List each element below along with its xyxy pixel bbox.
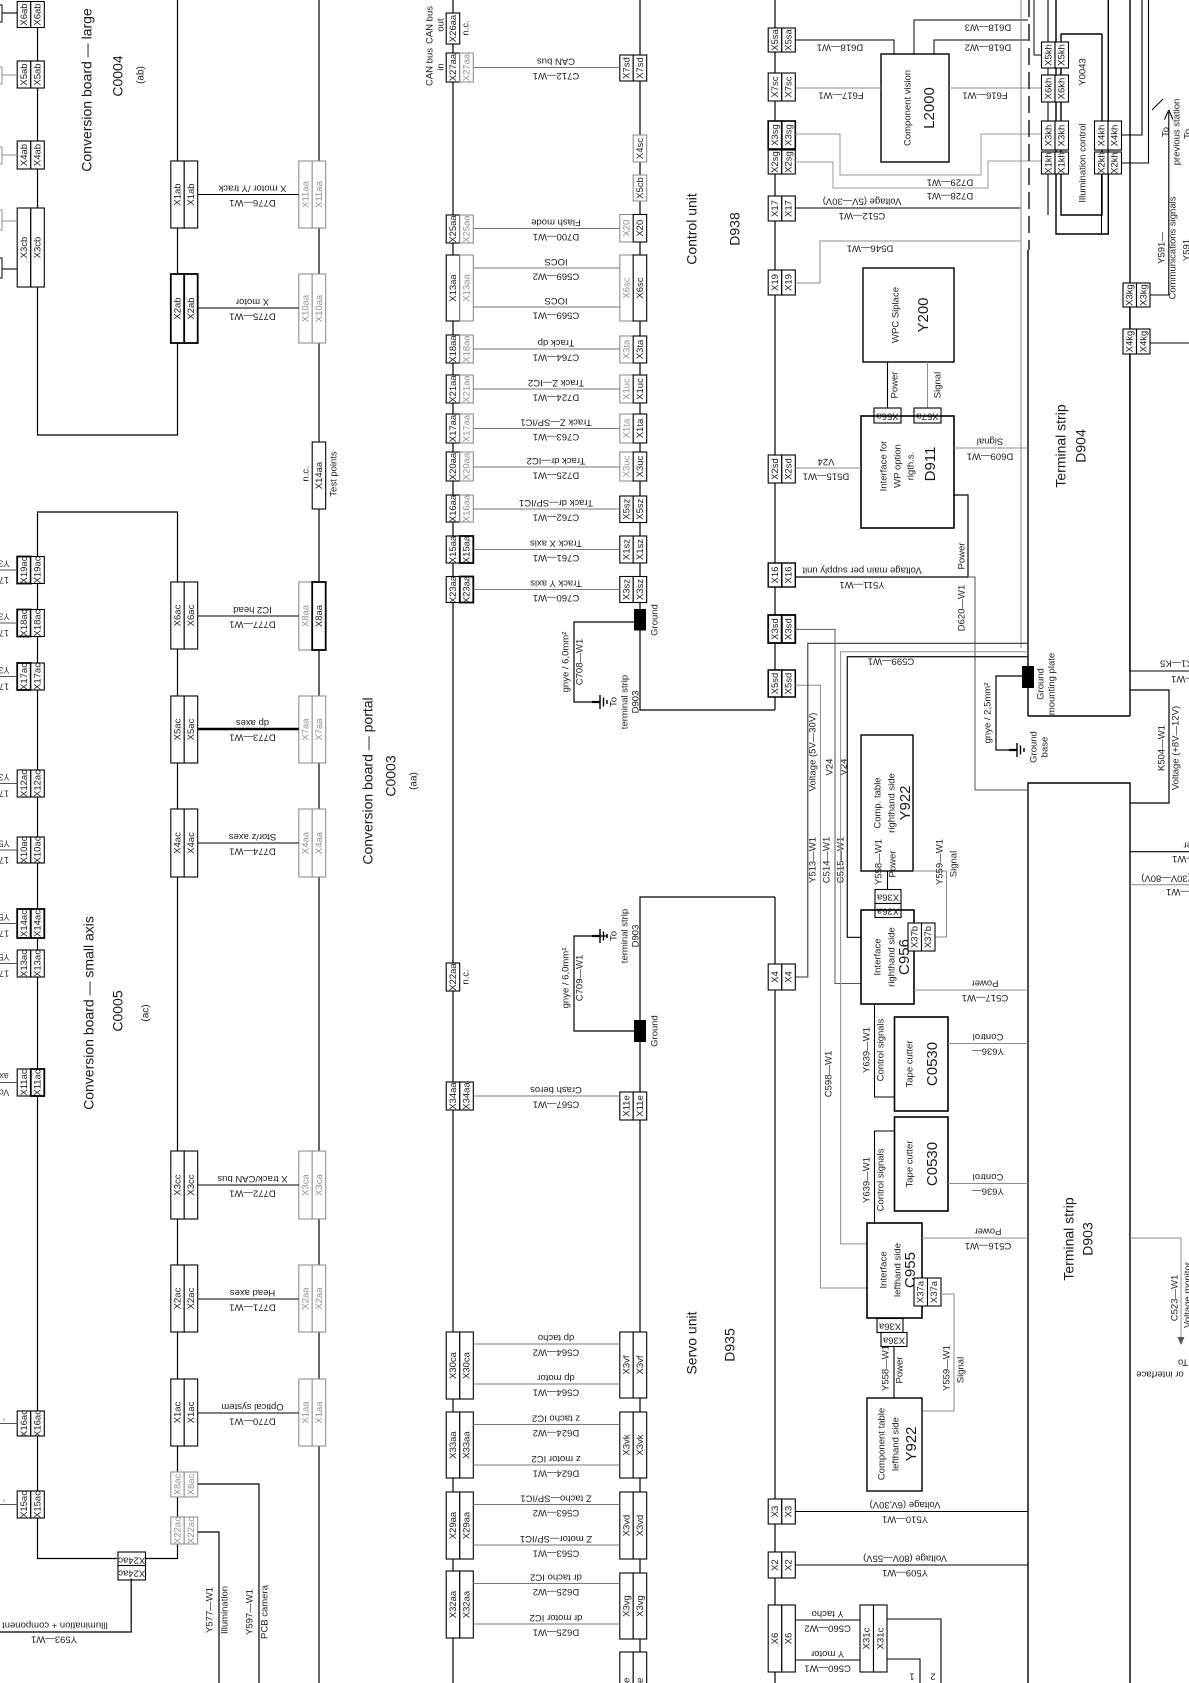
svg-text:X24ac: X24ac: [118, 1568, 145, 1579]
connector X31c: [860, 1605, 874, 1672]
svg-text:X19: X19: [770, 274, 781, 291]
svg-text:X7sc: X7sc: [784, 76, 795, 97]
svg-text:terminal strip: terminal strip: [620, 675, 631, 729]
svg-text:CAN bus: CAN bus: [537, 55, 575, 66]
svg-text:X6: X6: [784, 1633, 795, 1645]
svg-text:Terminal strip: Terminal strip: [1061, 1197, 1077, 1280]
ground bar control unit: [634, 609, 646, 631]
connector X15aa: [446, 536, 460, 563]
connector X27aa: [446, 53, 460, 82]
svg-text:X34aa: X34aa: [462, 1082, 473, 1110]
connector X18ac: [17, 610, 31, 637]
svg-text:To: To: [609, 697, 620, 707]
wire Y513-W1 voltage 5V-30V to X4: [795, 643, 1028, 977]
connector X1ta: [620, 414, 634, 443]
wire F617-W1: [795, 87, 881, 89]
svg-text:X3ta: X3ta: [622, 339, 633, 359]
cable C564—W1 (dp motor): [473, 1383, 620, 1385]
svg-text:D618—W2: D618—W2: [965, 41, 1011, 52]
svg-text:C599—W1: C599—W1: [868, 655, 914, 666]
connector X16ac: [17, 1411, 31, 1436]
svg-text:Voltage (5V—30V): Voltage (5V—30V): [808, 713, 819, 792]
connector X23aa: [446, 577, 460, 603]
svg-text:D625—W2: D625—W2: [533, 1586, 579, 1597]
svg-text:D774—W1: D774—W1: [229, 845, 275, 856]
svg-text:Power: Power: [888, 851, 899, 878]
svg-text:X25aa: X25aa: [448, 215, 459, 243]
svg-text:C563—W2: C563—W2: [533, 1507, 579, 1518]
svg-text:X10aa: X10aa: [314, 294, 325, 322]
cable D770—W1 (Optical system): [198, 1412, 299, 1414]
wire portal chain: [318, 0, 320, 161]
svg-text:X20: X20: [622, 220, 633, 237]
cable D700—W1 (Flash mode): [473, 228, 620, 230]
wire kh chain: [1047, 68, 1049, 75]
svg-text:Y591—: Y591—: [1157, 232, 1168, 264]
connector X32aa: [446, 1571, 460, 1638]
svg-text:’: ’: [3, 1412, 5, 1422]
svg-text:X6ac: X6ac: [186, 604, 197, 626]
connector X4kg: [1123, 329, 1137, 354]
connector X6: [768, 1605, 782, 1672]
unit C956 Interface righthand side: [861, 910, 914, 1004]
svg-text:Track dr—SP/IC1: Track dr—SP/IC1: [519, 497, 593, 508]
svg-text:C760—W1: C760—W1: [533, 592, 579, 603]
svg-text:n.c.: n.c.: [461, 969, 472, 984]
connector X24ac: [118, 1566, 146, 1581]
connector X5cb: [633, 175, 647, 201]
svg-text:Voltage monitor: Voltage monitor: [1183, 1262, 1189, 1328]
svg-text:or interface: or interface: [1136, 1368, 1184, 1379]
svg-text:X18ac: X18ac: [33, 609, 44, 636]
svg-text:Communications signals: Communications signals: [1168, 196, 1179, 299]
svg-text:X15aa: X15aa: [448, 535, 459, 563]
svg-text:X3vf: X3vf: [622, 1355, 633, 1374]
svg-text:gnye / 6,0mm²: gnye / 6,0mm²: [561, 632, 572, 693]
svg-text:Control signals: Control signals: [876, 1018, 887, 1081]
svg-text:Y577—W1: Y577—W1: [205, 1587, 216, 1633]
svg-text:X1ab: X1ab: [173, 183, 184, 205]
svg-text:X4ac: X4ac: [186, 832, 197, 854]
connector X57a: [914, 408, 941, 423]
svg-text:D935: D935: [722, 1328, 738, 1362]
wire K504-W1 voltage +8V-12V: [1130, 690, 1169, 803]
wire Voltage 30V-80V exit right edge: [1130, 884, 1189, 886]
svg-text:X1ta: X1ta: [635, 418, 646, 438]
connector X20aa: [446, 452, 460, 481]
svg-text:X36a: X36a: [882, 1334, 905, 1345]
wire C514-W1 V24 from X3sd to C956: [795, 629, 861, 983]
connector X4aa: [299, 809, 313, 877]
svg-text:Tape cutter: Tape cutter: [905, 1041, 916, 1088]
wire Y511-W1 voltage main per supply unit: [795, 576, 968, 578]
svg-text:X3vg: X3vg: [622, 1595, 633, 1617]
wire X4kg to page edge: [1150, 342, 1189, 344]
cable D775—W1 (X motor): [198, 307, 299, 309]
svg-text:IOCS: IOCS: [544, 256, 567, 267]
svg-text:X2: X2: [784, 1559, 795, 1571]
svg-text:17: 17: [0, 575, 9, 585]
svg-text:X29aa: X29aa: [462, 1511, 473, 1539]
svg-text:dr motor IC2: dr motor IC2: [530, 1612, 583, 1623]
svg-text:X2: X2: [770, 1559, 781, 1571]
cable C563—W2 (Z tacho—SP/IC1): [473, 1504, 620, 1506]
svg-text:X23aa: X23aa: [448, 575, 459, 603]
svg-text:Y639—W1: Y639—W1: [862, 1157, 873, 1203]
svg-text:(ac): (ac): [141, 1004, 152, 1021]
connector X3vg: [620, 1573, 634, 1639]
connector X2sd: [768, 455, 782, 483]
connector X3vk: [620, 1412, 634, 1478]
svg-text:(ab): (ab): [136, 66, 147, 84]
svg-text:C567—W1: C567—W1: [533, 1098, 579, 1109]
connector X3uc: [620, 452, 634, 481]
connector X6kh: [1042, 75, 1056, 102]
svg-text:X3vd: X3vd: [622, 1515, 633, 1537]
svg-text:X7sd: X7sd: [622, 57, 633, 79]
stub wires to cut boxes left edge: [0, 569, 17, 571]
svg-text:D700—W1: D700—W1: [533, 231, 579, 242]
svg-text:Y3: Y3: [0, 559, 10, 569]
svg-text:X15ac: X15ac: [33, 1491, 44, 1518]
cable C761—W1 (Track X axis): [473, 549, 620, 551]
connector X19ac: [17, 557, 31, 584]
svg-text:Control: Control: [973, 1171, 1004, 1182]
cable C560—W1 (Y motor): [795, 1659, 860, 1661]
svg-text:X1ac: X1ac: [186, 1401, 197, 1423]
svg-text:Component table: Component table: [877, 1408, 888, 1480]
svg-text:X27aa: X27aa: [448, 53, 459, 81]
cable D773—W1 (dp axes): [198, 728, 299, 730]
wire Y639-W1 control signals 2: [875, 1131, 895, 1224]
cable D625—W2 (dr tacho IC2): [473, 1583, 620, 1585]
svg-text:X36a: X36a: [876, 891, 899, 902]
svg-text:Track dp: Track dp: [538, 337, 575, 348]
svg-text:X37a: X37a: [929, 1280, 940, 1303]
svg-text:V24: V24: [825, 759, 836, 776]
wire C598-W1 from X5sd to C955: [795, 685, 867, 1288]
svg-text:X11aa: X11aa: [301, 180, 312, 207]
unit Y0043 Illumination control box: [1061, 34, 1102, 215]
svg-text:Y597—W1: Y597—W1: [245, 1589, 256, 1635]
cable C760—W1 (Track Y axis): [473, 589, 620, 591]
svg-text:X13ac: X13ac: [19, 950, 30, 977]
unit C0530 Tape cutter 1: [895, 1017, 949, 1111]
svg-text:Y5: Y5: [0, 912, 10, 922]
wire D729-W1 X3sg: [795, 134, 1041, 175]
wire Y639-W1 control signals 1: [875, 1004, 895, 1097]
cable D724—W1 (Track Z—IC2): [473, 388, 620, 390]
wire C515-W1 V24 to C956: [847, 657, 1028, 938]
svg-text:Y558—W1: Y558—W1: [874, 839, 885, 885]
svg-text:X31c: X31c: [862, 1627, 873, 1649]
connector X36a: [881, 1333, 907, 1347]
svg-text:X8aa: X8aa: [314, 604, 325, 627]
connector X1aa: [299, 1379, 313, 1446]
svg-text:D724—W1: D724—W1: [533, 391, 579, 402]
wire Y558-W1 power: [887, 871, 889, 890]
connector X30ca: [446, 1332, 460, 1399]
svg-text:X4aa: X4aa: [314, 831, 325, 854]
svg-text:D618—W1: D618—W1: [817, 41, 863, 52]
wire F616-W1: [949, 87, 1042, 89]
svg-text:n.c.: n.c.: [461, 20, 472, 35]
svg-text:X1ab: X1ab: [186, 183, 197, 205]
svg-text:X7sc: X7sc: [770, 76, 781, 97]
svg-text:C514—W1: C514—W1: [822, 837, 833, 883]
svg-text:Component vision: Component vision: [903, 70, 914, 146]
connector X5ac: [171, 696, 185, 763]
connector X10ac: [17, 837, 31, 863]
svg-text:X5sa: X5sa: [784, 28, 795, 50]
connector X3: [768, 1499, 782, 1524]
svg-text:X3vk: X3vk: [622, 1434, 633, 1455]
svg-text:X5ac: X5ac: [173, 718, 184, 740]
wire C0004 left chain: [37, 28, 39, 62]
svg-text:Voltage (6V,30V): Voltage (6V,30V): [870, 1499, 941, 1510]
svg-text:C762—W1: C762—W1: [533, 511, 579, 522]
svg-text:X7aa: X7aa: [301, 718, 312, 741]
ground lead gnye 2.5mm2: [996, 676, 1022, 750]
ground lead C709-W1 to terminal strip D903: [574, 936, 634, 1031]
connector X5sd: [768, 670, 782, 697]
svg-text:Tape cutter: Tape cutter: [905, 1141, 916, 1188]
svg-text:X2ac: X2ac: [173, 1287, 184, 1309]
wire Y636 control 1: [948, 1043, 1028, 1045]
svg-text:D609—W1: D609—W1: [967, 450, 1013, 461]
wire C0005 left chain: [38, 512, 178, 582]
svg-text:X6sc: X6sc: [622, 277, 633, 298]
svg-text:X1ta: X1ta: [622, 418, 633, 438]
connector X2: [768, 1552, 782, 1578]
svg-text:X36a: X36a: [876, 905, 899, 916]
svg-text:X5cb: X5cb: [635, 177, 646, 199]
connector X36a: [875, 890, 901, 904]
svg-text:X10aa: X10aa: [301, 294, 312, 322]
svg-text:X3vg: X3vg: [635, 1595, 646, 1617]
unit C0530 Tape cutter 2: [895, 1117, 949, 1211]
wire D620-W1: [968, 577, 1028, 790]
wire C516-W1 power: [922, 1237, 1028, 1239]
svg-text:X8ac: X8ac: [186, 1473, 197, 1495]
svg-text:X6: X6: [770, 1633, 781, 1645]
svg-text:Y591: Y591: [1182, 239, 1189, 261]
svg-text:X17aa: X17aa: [448, 414, 459, 442]
svg-text:X22aa: X22aa: [448, 963, 459, 991]
svg-text:dr tacho IC2: dr tacho IC2: [530, 1571, 582, 1582]
svg-text:X5ab: X5ab: [33, 63, 44, 85]
svg-text:CAN bus: CAN bus: [425, 48, 436, 86]
connector X1ab: [171, 161, 185, 228]
svg-text:X6kh: X6kh: [1043, 78, 1054, 100]
svg-text:X5sz: X5sz: [622, 498, 633, 519]
svg-text:Interface: Interface: [873, 939, 884, 976]
cable C567—W1 (Crash beros): [473, 1095, 620, 1097]
svg-text:X21aa: X21aa: [448, 375, 459, 403]
dashed boundary: [1028, 0, 1030, 250]
svg-text:X7aa: X7aa: [314, 718, 325, 741]
svg-text:dp tacho: dp tacho: [538, 1332, 574, 1343]
svg-text:Voltage (5V—30V): Voltage (5V—30V): [823, 195, 902, 206]
svg-text:C517—W1: C517—W1: [962, 992, 1008, 1003]
svg-text:X1aa: X1aa: [314, 1401, 325, 1424]
unit Y0043 Illumination control outer box: [1056, 0, 1108, 234]
svg-text:Power: Power: [895, 1357, 906, 1384]
connector X2ab: [171, 274, 185, 343]
cable C569—W1 (IOCS): [473, 306, 620, 308]
svg-text:X3: X3: [784, 1506, 795, 1518]
svg-text:X2ab: X2ab: [173, 297, 184, 319]
cable D725—W1 (Track dr—IC2): [473, 466, 620, 468]
connector X3sz: [620, 577, 634, 603]
svg-text:17: 17: [0, 789, 9, 799]
svg-text:dp motor: dp motor: [537, 1372, 575, 1383]
svg-text:X11aa: X11aa: [314, 180, 325, 207]
svg-text:X20aa: X20aa: [448, 452, 459, 480]
svg-text:X3ca: X3ca: [301, 1173, 312, 1195]
svg-text:Power: Power: [957, 543, 968, 570]
svg-text:X11ac: X11ac: [19, 1069, 30, 1095]
svg-text:X3ca: X3ca: [314, 1173, 325, 1195]
connector X4kh: [1095, 121, 1109, 150]
svg-text:PCB camera: PCB camera: [260, 1584, 271, 1639]
svg-text:X4kg: X4kg: [1138, 331, 1149, 353]
unit Y200 WPC Siplace: [863, 268, 954, 362]
svg-text:X20: X20: [635, 220, 646, 237]
svg-text:Test points: Test points: [329, 451, 340, 497]
svg-text:—W1: —W1: [1172, 853, 1189, 864]
svg-text:Interface for: Interface for: [879, 441, 890, 492]
svg-text:X4aa: X4aa: [301, 831, 312, 854]
svg-text:X3kg: X3kg: [1138, 284, 1149, 306]
svg-text:X23aa: X23aa: [462, 575, 473, 603]
svg-text:base: base: [1040, 737, 1051, 758]
svg-text:X32aa: X32aa: [448, 1590, 459, 1618]
svg-text:X3: X3: [770, 1506, 781, 1518]
svg-text:C523—W1: C523—W1: [1170, 1275, 1181, 1321]
svg-text:X14ac: X14ac: [19, 910, 30, 937]
wire Y636 control 2: [948, 1183, 1028, 1185]
svg-text:X1uc: X1uc: [622, 378, 633, 400]
connector X3ca: [299, 1151, 313, 1219]
svg-text:X10ac: X10ac: [19, 836, 30, 863]
svg-text:IOCS: IOCS: [544, 295, 567, 306]
svg-text:X2sg: X2sg: [784, 151, 795, 173]
svg-text:X18ac: X18ac: [19, 609, 30, 636]
svg-text:X2ac: X2ac: [186, 1287, 197, 1309]
connector X16aa: [446, 495, 460, 522]
connector X11aa: [299, 161, 313, 228]
svg-text:X3cb: X3cb: [33, 237, 44, 259]
svg-text:n.c.: n.c.: [301, 466, 312, 481]
wire Power exit right edge: [1130, 851, 1189, 853]
svg-text:X5ab: X5ab: [19, 63, 30, 85]
svg-text:X36a: X36a: [878, 1320, 901, 1331]
cable C712—W1 (CAN bus): [473, 67, 620, 69]
svg-text:X30ca: X30ca: [462, 1351, 473, 1379]
svg-text:D903: D903: [1080, 1222, 1096, 1256]
svg-text:X34aa: X34aa: [448, 1082, 459, 1110]
wire D618-W3: [914, 20, 1028, 54]
connector X11ac: [17, 1069, 31, 1096]
ground bar servo unit: [634, 1020, 646, 1042]
svg-text:X30ca: X30ca: [448, 1351, 459, 1379]
svg-text:C712—W1: C712—W1: [533, 70, 579, 81]
svg-text:C761—W1: C761—W1: [533, 552, 579, 563]
connector X3cb: [17, 208, 31, 287]
connector X25aa: [446, 215, 460, 243]
svg-text:X4kg: X4kg: [1125, 331, 1136, 353]
connector X3ta: [620, 336, 634, 363]
svg-text:X16ac: X16ac: [33, 1410, 44, 1437]
svg-text:D618—W3: D618—W3: [965, 21, 1011, 32]
svg-text:X3ta: X3ta: [635, 339, 646, 359]
unit Terminal strip D903 box: [1028, 783, 1130, 1683]
connector X22ac: [171, 1517, 185, 1544]
cable D624—W2 (z tacho IC2): [473, 1424, 620, 1426]
svg-text:WP option: WP option: [893, 444, 904, 488]
svg-text:17: 17: [0, 682, 9, 692]
svg-text:Control signals: Control signals: [876, 1148, 887, 1211]
svg-text:out: out: [436, 18, 447, 32]
svg-text:D770—W1: D770—W1: [229, 1415, 275, 1426]
svg-text:X6ac: X6ac: [173, 604, 184, 626]
wire C512-W1 voltage 5V-30V: [795, 207, 1021, 209]
connector X5sz: [620, 496, 634, 523]
svg-text:Illumination control: Illumination control: [1078, 123, 1089, 202]
wire power D911: [954, 495, 968, 577]
svg-text:X37b: X37b: [910, 926, 921, 948]
svg-text:X5kh: X5kh: [1057, 44, 1068, 66]
svg-text:X11e: X11e: [635, 1095, 646, 1116]
svg-text:X18aa: X18aa: [448, 335, 459, 363]
svg-text:lefthand side: lefthand side: [891, 1417, 902, 1471]
svg-text:X motor /Y track: X motor /Y track: [218, 182, 286, 193]
connector X13ac: [17, 950, 31, 977]
wire control unit chain 1: [639, 0, 641, 55]
connector X12ac: [17, 770, 31, 797]
svg-text:z motor IC2: z motor IC2: [531, 1453, 580, 1464]
svg-text:Conversion board — large: Conversion board — large: [79, 8, 95, 172]
svg-text:Track Y axis: Track Y axis: [530, 577, 582, 588]
svg-text:X17ac: X17ac: [19, 663, 30, 690]
wire Y510-W1 voltage 6V 30V: [795, 1511, 1028, 1513]
svg-text:D546—W1: D546—W1: [847, 242, 893, 253]
svg-text:Conversion board — portal: Conversion board — portal: [360, 697, 376, 864]
svg-text:C598—W1: C598—W1: [824, 1051, 835, 1097]
unit L2000 Component vision: [881, 54, 949, 162]
svg-text:’: ’: [3, 1493, 5, 1503]
svg-text:X17ac: X17ac: [33, 663, 44, 690]
cable D774—W1 (Stor/z axes): [198, 842, 299, 844]
connector X7sc: [768, 73, 782, 101]
connector X1e: [620, 1652, 634, 1683]
svg-text:X1uc: X1uc: [635, 378, 646, 400]
cable C564—W2 (dp tacho): [473, 1343, 620, 1345]
cable C764—W1 (Track dp): [473, 348, 620, 350]
svg-text:—W1: —W1: [1166, 886, 1189, 897]
svg-text:X3cb: X3cb: [19, 237, 30, 259]
svg-text:X2sd: X2sd: [784, 458, 795, 480]
svg-text:D620—W1: D620—W1: [957, 585, 968, 631]
svg-text:To: To: [1183, 129, 1189, 139]
svg-text:X2aa: X2aa: [314, 1287, 325, 1310]
svg-text:z tacho IC2: z tacho IC2: [532, 1412, 580, 1423]
svg-text:D904: D904: [1073, 429, 1089, 463]
connector X4ac: [171, 809, 185, 877]
svg-text:X8aa: X8aa: [301, 604, 312, 627]
svg-text:X5sd: X5sd: [770, 673, 781, 695]
